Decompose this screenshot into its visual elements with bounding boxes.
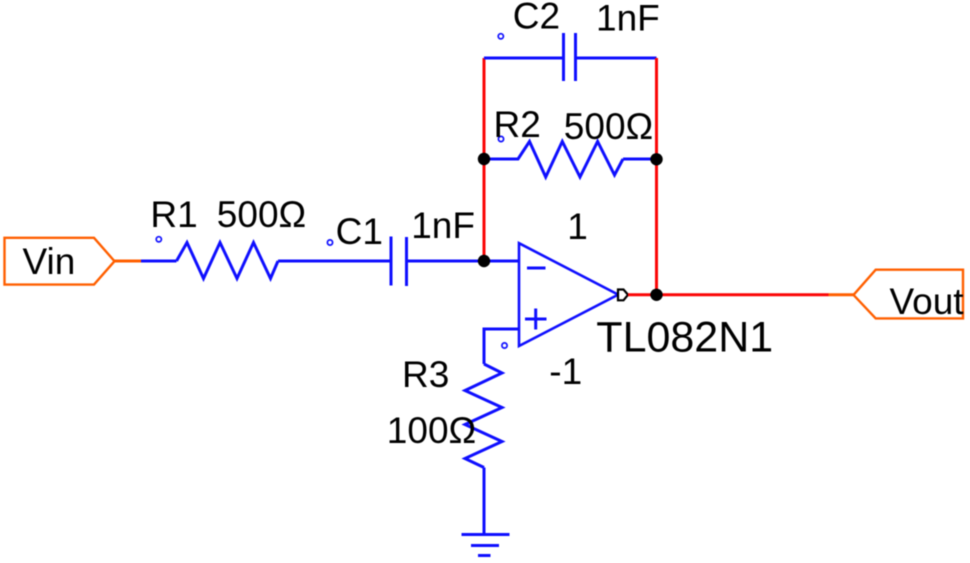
capacitor C2 — [498, 0, 660, 81]
op-amp output pin bubble — [618, 290, 628, 301]
svg-text:Vin: Vin — [23, 241, 76, 282]
wire left feedback riser (red) — [483, 58, 486, 261]
svg-text:-1: -1 — [549, 351, 582, 392]
wire top left to C2 — [484, 57, 562, 60]
wire R2 row right — [623, 158, 657, 161]
wire C2 to right riser — [577, 57, 657, 60]
svg-text:Vout: Vout — [890, 281, 965, 322]
svg-text:1nF: 1nF — [411, 205, 475, 246]
junction right R2 — [650, 153, 662, 165]
svg-text:C2: C2 — [513, 0, 560, 37]
wire R1 to C1 — [278, 260, 391, 263]
capacitor C1 — [327, 205, 475, 286]
wire output (red) — [628, 293, 829, 296]
svg-text:R1: R1 — [150, 194, 197, 235]
svg-text:1: 1 — [567, 206, 588, 247]
junction output node — [650, 289, 662, 301]
junction left R2 — [478, 153, 490, 165]
resistor R3 — [387, 354, 502, 468]
resistor R1 — [150, 194, 306, 279]
resistor R2 — [494, 104, 654, 177]
wire non-inverting input — [484, 329, 519, 364]
svg-text:500Ω: 500Ω — [564, 106, 653, 147]
ground — [462, 535, 510, 556]
wire R3 to ground — [483, 468, 486, 536]
wire output stub to Vout (orange) — [829, 293, 854, 296]
svg-text:100Ω: 100Ω — [387, 410, 476, 451]
svg-text:R3: R3 — [402, 354, 449, 395]
port Vin — [5, 238, 115, 285]
svg-text:500Ω: 500Ω — [217, 194, 306, 235]
op-amp U1 TL082N1 — [502, 206, 773, 392]
svg-text:R2: R2 — [494, 104, 541, 145]
svg-text:1nF: 1nF — [596, 0, 660, 39]
junction inverting input node — [478, 255, 490, 267]
wire right feedback riser (red) — [655, 58, 658, 295]
svg-text:TL082N1: TL082N1 — [596, 314, 773, 362]
wire Vin to R1 (orange stub) — [115, 260, 142, 263]
wire R2 row left — [484, 158, 519, 161]
svg-text:C1: C1 — [336, 211, 383, 252]
wire Vin stub to R1 (blue) — [141, 260, 177, 263]
wire C1 to op-amp inverting input — [407, 260, 520, 263]
port Vout — [854, 270, 965, 322]
